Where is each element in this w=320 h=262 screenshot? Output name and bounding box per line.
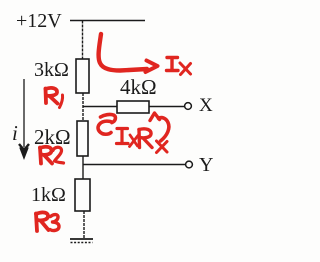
wire R1 bottom to node	[82, 93, 84, 121]
ground symbol	[70, 239, 93, 243]
svg-text:X: X	[199, 95, 213, 116]
wire top horizontal from +12V to right	[70, 20, 145, 22]
resistor R2 2k box	[77, 121, 88, 156]
annotation red curl (left, voltage across Rx)	[98, 114, 115, 134]
wire node to terminal Y	[83, 164, 186, 166]
wire R3 bottom to ground	[83, 211, 85, 238]
wire R2 bottom to R3	[82, 156, 84, 179]
wire rail from top wire down to R1	[82, 21, 84, 60]
svg-text:4kΩ: 4kΩ	[120, 75, 157, 99]
IxRx label (red)	[117, 129, 168, 153]
terminal Y circle	[186, 161, 193, 168]
svg-text:+12V: +12V	[16, 10, 62, 32]
wire Rx right to terminal X	[149, 106, 185, 108]
svg-text:1kΩ: 1kΩ	[31, 184, 66, 206]
svg-text:3kΩ: 3kΩ	[34, 59, 69, 81]
svg-text:Y: Y	[199, 154, 213, 176]
current arrow i	[19, 79, 29, 150]
resistor Rx 4k box	[117, 101, 149, 113]
annotation red hook arrow (current Ix path)	[99, 34, 158, 72]
R1 label (red)	[46, 88, 63, 108]
svg-text:2kΩ: 2kΩ	[34, 125, 71, 149]
wire node to Rx left	[83, 106, 117, 108]
Ix label (red)	[167, 58, 191, 75]
resistor R3 1k box	[75, 179, 90, 211]
resistor R1 3k box	[76, 59, 89, 93]
R2 label (red)	[40, 147, 64, 164]
annotation red curl arrow (right, points at Rx)	[150, 113, 169, 141]
svg-text:i: i	[12, 121, 18, 145]
R3 label (red)	[36, 212, 59, 231]
terminal X circle	[185, 103, 192, 110]
